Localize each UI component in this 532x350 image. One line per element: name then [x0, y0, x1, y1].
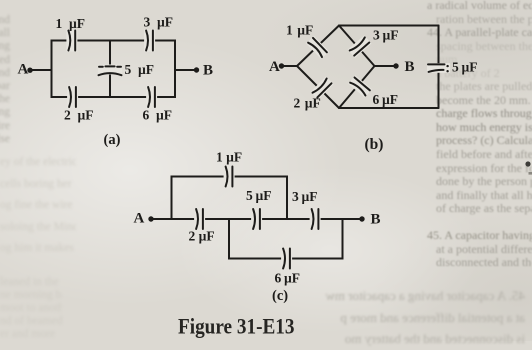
capacitor 6 µF (a) [146, 86, 157, 108]
svg-text:2 µF: 2 µF [189, 229, 215, 244]
svg-text:6 µF: 6 µF [275, 271, 300, 286]
capacitor 3 µF (a) [144, 30, 155, 52]
wire: rectangle outline (a) [52, 41, 176, 98]
wire: diamond edge A-bottom with 2µF (b) [297, 66, 339, 108]
capacitor 5 µF (a) [98, 65, 122, 76]
svg-text:3 µF: 3 µF [144, 15, 174, 30]
svg-text:A: A [18, 62, 29, 78]
svg-text:2 µF: 2 µF [64, 108, 94, 123]
node B terminal dot (b) [393, 63, 398, 68]
mirrored bleed-through text bottom right [316, 285, 525, 350]
capacitor 3 µF (b) [348, 35, 372, 58]
right text column (adjacent printed column, blurred) [427, 0, 532, 270]
wire: bottom branch with 6µF (c) [229, 219, 343, 259]
svg-text:1 µF: 1 µF [286, 23, 313, 38]
svg-text:A: A [269, 59, 280, 75]
capacitor 2 µF (a) [67, 86, 78, 108]
wire: diamond edge bottom-B with 6µF (b) [339, 66, 375, 108]
wire: top branch with 1µF (c) [172, 177, 288, 220]
capacitor 3 µF (c) [310, 208, 321, 230]
svg-text:6 µF: 6 µF [373, 92, 398, 107]
svg-text:A: A [134, 211, 145, 227]
wire: bottom horizontal from bottom vertex (b) [339, 107, 439, 109]
svg-text:(a): (a) [104, 132, 121, 148]
svg-text:5 µF: 5 µF [246, 188, 271, 203]
svg-text:1 µF: 1 µF [56, 16, 86, 31]
svg-text:B: B [203, 63, 213, 79]
svg-text:B: B [405, 59, 415, 75]
wire: middle vertical branch (a) [109, 41, 111, 98]
faint bleed-through text: lower left block [0, 152, 76, 260]
capacitor 1 µF (b) [306, 36, 329, 59]
wire: lead to node B (b) [375, 65, 396, 67]
svg-text:5 µF: 5 µF [452, 60, 477, 75]
capacitor 1 µF (c) [224, 166, 235, 188]
wire: lead from node A (b) [282, 65, 297, 67]
node A terminal dot (a) [27, 68, 32, 73]
node A terminal dot (b) [279, 63, 284, 68]
wire: top horizontal from top vertex (b) [339, 25, 439, 27]
capacitor 1 µF (a) [66, 30, 77, 52]
capacitor 6 µF (b) [348, 75, 372, 98]
svg-text:Figure 31-E13: Figure 31-E13 [178, 314, 295, 339]
wire: main horizontal A to B (c) [153, 218, 362, 220]
svg-text:3 µF: 3 µF [292, 189, 317, 204]
capacitor 6 µF (c) [281, 248, 292, 270]
capacitor 5 µF (b) [427, 63, 450, 73]
node A terminal dot (c) [148, 216, 153, 221]
wire: lead to node B (a) [175, 69, 195, 71]
node B terminal dot (c) [359, 216, 364, 221]
svg-text:3 µF: 3 µF [373, 28, 398, 43]
wire: right vertical with 5µF (b) [438, 26, 440, 109]
svg-text:6 µF: 6 µF [143, 108, 173, 123]
stray ink dot in right margin [525, 161, 530, 166]
node B terminal dot (a) [194, 67, 199, 72]
svg-text:1 µF: 1 µF [216, 150, 242, 165]
svg-text:(c): (c) [272, 288, 288, 304]
wire: diamond edge top-B with 3µF (b) [339, 26, 375, 67]
wire: diamond edge A-top with 1µF (b) [297, 26, 339, 67]
svg-text:B: B [371, 212, 381, 228]
svg-text:(b): (b) [365, 136, 384, 153]
capacitor 2 µF (b) [310, 76, 333, 99]
wire: lead from node A (a) [30, 69, 52, 71]
svg-text:2 µF: 2 µF [294, 96, 321, 111]
capacitor 5 µF (c) [251, 208, 262, 230]
capacitor 2 µF (c) [194, 208, 205, 230]
svg-text:5 µF: 5 µF [125, 62, 155, 77]
faint bleed-through text: left margin strip [0, 14, 10, 146]
